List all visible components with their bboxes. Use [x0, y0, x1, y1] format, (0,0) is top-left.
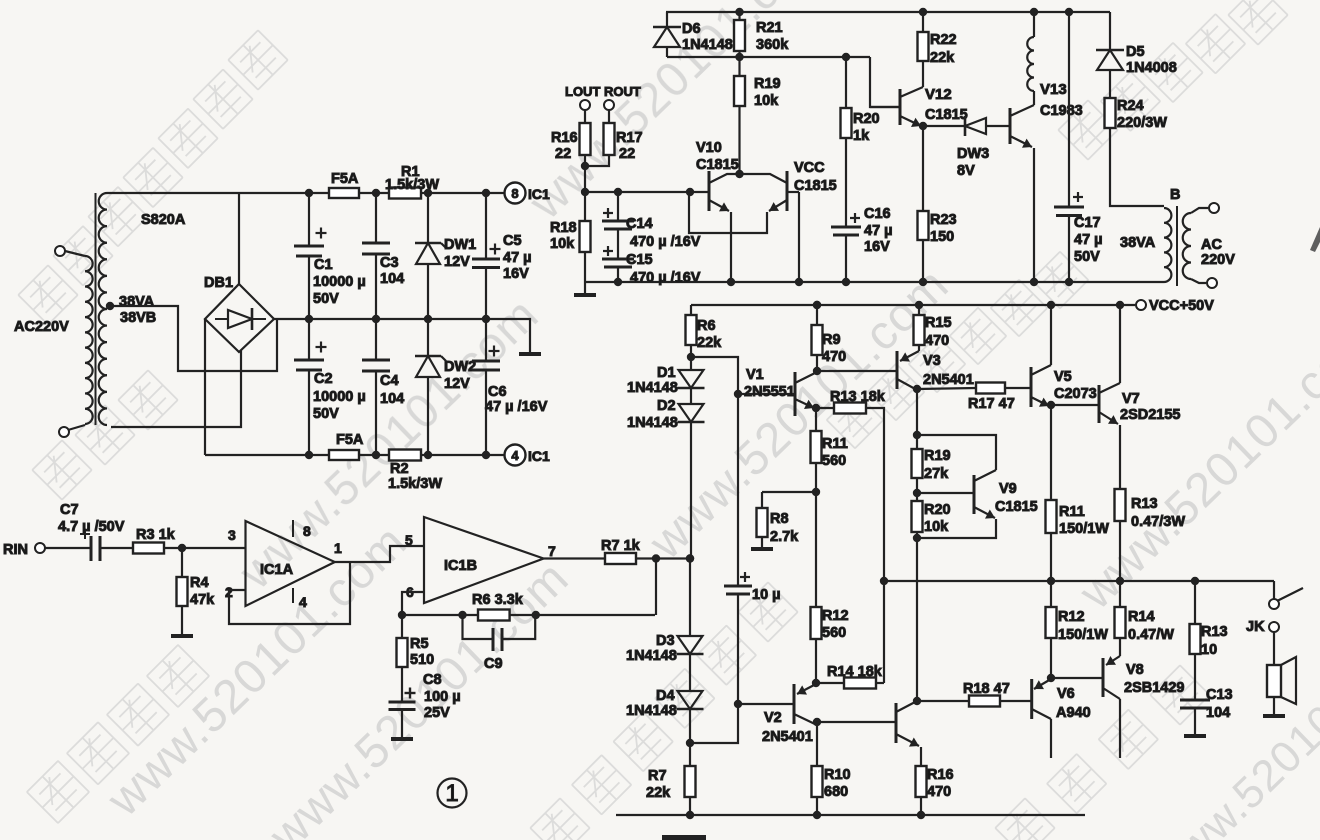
svg-text:560: 560: [822, 625, 846, 641]
svg-text:R18: R18: [550, 220, 577, 236]
svg-text:R22: R22: [930, 32, 957, 48]
svg-text:DW3: DW3: [957, 146, 989, 162]
svg-text:104: 104: [380, 391, 404, 407]
svg-text:7: 7: [548, 543, 556, 559]
svg-text:C8: C8: [423, 672, 442, 688]
svg-text:47k: 47k: [190, 592, 215, 608]
svg-text:12V: 12V: [444, 376, 470, 392]
svg-text:16V: 16V: [503, 266, 529, 282]
svg-text:C1815: C1815: [995, 499, 1038, 515]
svg-text:1k: 1k: [853, 128, 870, 144]
svg-text:0.47/3W: 0.47/3W: [1131, 514, 1185, 530]
svg-text:IC1: IC1: [528, 186, 550, 202]
svg-text:470: 470: [822, 349, 846, 365]
svg-text:R13 18k: R13 18k: [830, 389, 886, 405]
svg-text:A940: A940: [1056, 705, 1091, 721]
svg-text:V8: V8: [1126, 662, 1144, 678]
svg-text:R12: R12: [822, 608, 849, 624]
svg-text:50V: 50V: [313, 406, 339, 422]
svg-text:R24: R24: [1117, 98, 1144, 114]
svg-text:2N5401: 2N5401: [923, 372, 974, 388]
svg-text:50V: 50V: [1074, 249, 1100, 265]
svg-text:470 µ /16V: 470 µ /16V: [630, 234, 701, 250]
svg-text:R8: R8: [770, 511, 789, 527]
svg-text:C13: C13: [1206, 687, 1233, 703]
svg-text:47 µ: 47 µ: [503, 250, 532, 266]
svg-text:V2: V2: [764, 710, 782, 726]
svg-text:D3: D3: [656, 633, 675, 649]
svg-text:V5: V5: [1054, 369, 1072, 385]
svg-text:2SB1429: 2SB1429: [1124, 680, 1184, 696]
svg-text:C7: C7: [60, 502, 79, 518]
svg-text:www.520101.com: www.520101.com: [1144, 608, 1320, 840]
svg-text:2N5551: 2N5551: [744, 384, 795, 400]
svg-text:47 µ: 47 µ: [864, 223, 893, 239]
svg-text:R14 18k: R14 18k: [827, 664, 883, 680]
svg-text:S820A: S820A: [141, 212, 186, 228]
svg-text:V3: V3: [923, 353, 941, 369]
svg-text:R11: R11: [1059, 504, 1085, 520]
svg-text:R23: R23: [930, 212, 957, 228]
svg-text:0.47/W: 0.47/W: [1128, 627, 1174, 643]
svg-text:V13: V13: [1040, 81, 1067, 98]
svg-text:4: 4: [511, 448, 519, 463]
svg-text:22k: 22k: [697, 335, 722, 351]
svg-text:8V: 8V: [957, 163, 975, 179]
svg-text:10 µ: 10 µ: [752, 587, 781, 603]
svg-text:C16: C16: [864, 206, 891, 222]
svg-text:22k: 22k: [930, 50, 955, 66]
svg-text:C4: C4: [380, 373, 399, 389]
svg-text:D6: D6: [682, 21, 701, 37]
svg-text:R11: R11: [822, 436, 848, 452]
svg-text:C3: C3: [380, 255, 399, 271]
svg-text:470: 470: [925, 333, 949, 349]
svg-text:150: 150: [930, 229, 954, 245]
svg-text:DW1: DW1: [444, 237, 476, 253]
svg-text:470: 470: [927, 784, 951, 800]
svg-text:R20: R20: [924, 502, 951, 518]
svg-text:1N4148: 1N4148: [627, 415, 678, 431]
svg-text:4.7 µ /50V: 4.7 µ /50V: [58, 519, 125, 535]
svg-text:C17: C17: [1074, 215, 1101, 231]
svg-text:5: 5: [405, 532, 413, 548]
svg-text:D2: D2: [657, 398, 676, 414]
svg-text:4: 4: [299, 594, 307, 610]
svg-text:C1815: C1815: [696, 157, 739, 173]
svg-text:V10: V10: [696, 140, 722, 156]
svg-text:470 µ /16V: 470 µ /16V: [630, 270, 701, 286]
svg-text:38VA: 38VA: [1120, 235, 1156, 251]
svg-text:22k: 22k: [646, 785, 671, 801]
svg-text:R9: R9: [822, 332, 841, 348]
svg-text:2.7k: 2.7k: [770, 529, 799, 545]
svg-text:8: 8: [511, 186, 518, 201]
svg-text:220V: 220V: [1201, 252, 1235, 268]
svg-text:C1: C1: [314, 257, 333, 273]
svg-text:V1: V1: [746, 367, 764, 383]
svg-text:47 µ: 47 µ: [1074, 232, 1103, 248]
svg-text:R19: R19: [754, 76, 781, 92]
svg-text:10k: 10k: [550, 236, 575, 252]
svg-text:C1815: C1815: [794, 178, 837, 194]
svg-text:27k: 27k: [924, 466, 949, 482]
svg-text:C2073: C2073: [1054, 386, 1097, 402]
svg-text:IC1A: IC1A: [260, 562, 294, 578]
svg-text:www.520101.com: www.520101.com: [1069, 308, 1320, 620]
svg-text:AC: AC: [1201, 237, 1222, 253]
svg-text:8: 8: [303, 523, 311, 539]
svg-text:C1815: C1815: [925, 107, 968, 123]
svg-text:1.5k/3W: 1.5k/3W: [388, 476, 442, 492]
svg-text:680: 680: [824, 784, 848, 800]
svg-text:D4: D4: [656, 688, 675, 704]
svg-text:C5: C5: [503, 233, 522, 249]
svg-text:R21: R21: [756, 20, 783, 36]
svg-text:IC1: IC1: [528, 448, 550, 464]
svg-text:R3 1k: R3 1k: [136, 527, 176, 543]
svg-text:www.520101.com: www.520101.com: [519, 0, 839, 230]
svg-text:1N4148: 1N4148: [682, 37, 733, 53]
svg-text:R14: R14: [1128, 609, 1155, 625]
svg-text:2SD2155: 2SD2155: [1120, 407, 1180, 423]
svg-text:V6: V6: [1057, 686, 1075, 702]
svg-text:22: 22: [555, 146, 571, 162]
svg-text:R4: R4: [190, 575, 209, 591]
svg-text:R19: R19: [924, 448, 951, 464]
svg-text:R6: R6: [697, 318, 716, 334]
svg-text:R12: R12: [1058, 609, 1085, 625]
svg-text:R13: R13: [1131, 496, 1158, 512]
svg-text:R15: R15: [925, 315, 952, 331]
svg-text:V9: V9: [999, 481, 1017, 497]
svg-text:DB1: DB1: [204, 275, 233, 291]
svg-text:220/3W: 220/3W: [1117, 115, 1167, 131]
svg-text:10: 10: [1201, 642, 1217, 658]
svg-text:AC220V: AC220V: [14, 319, 69, 335]
svg-text:C2: C2: [314, 371, 333, 387]
svg-text:150/1W: 150/1W: [1059, 521, 1109, 537]
svg-text:F5A: F5A: [331, 171, 359, 187]
svg-text:V12: V12: [925, 86, 952, 103]
svg-text:2N5401: 2N5401: [762, 729, 813, 745]
svg-text:1: 1: [334, 540, 342, 556]
svg-text:F5A: F5A: [336, 432, 364, 448]
svg-text:LOUT: LOUT: [565, 84, 600, 99]
svg-text:C1983: C1983: [1040, 103, 1083, 119]
svg-text:10000 µ: 10000 µ: [313, 274, 366, 290]
svg-text:D5: D5: [1126, 44, 1145, 60]
svg-text:C15: C15: [626, 252, 653, 268]
svg-text:22: 22: [619, 146, 635, 162]
svg-text:3: 3: [228, 527, 236, 543]
svg-text:10k: 10k: [754, 93, 779, 109]
svg-text:R17: R17: [616, 130, 643, 146]
svg-text:ROUT: ROUT: [604, 84, 641, 99]
svg-text:10000 µ: 10000 µ: [313, 389, 366, 405]
svg-text:C9: C9: [484, 656, 503, 672]
svg-text:1N4148: 1N4148: [627, 380, 678, 396]
svg-text:360k: 360k: [756, 37, 789, 53]
svg-text:104: 104: [1206, 705, 1230, 721]
svg-text:150/1W: 150/1W: [1058, 627, 1108, 643]
svg-text:C14: C14: [626, 216, 653, 232]
svg-text:R5: R5: [410, 636, 429, 652]
svg-text:1N4148: 1N4148: [626, 703, 677, 719]
svg-text:V7: V7: [1122, 391, 1140, 407]
svg-text:R20: R20: [853, 111, 880, 127]
svg-text:104: 104: [380, 271, 404, 287]
svg-text:38VA: 38VA: [119, 294, 155, 310]
svg-text:100 µ: 100 µ: [424, 689, 461, 705]
svg-text:10k: 10k: [924, 519, 949, 535]
svg-text:DW2: DW2: [444, 359, 476, 375]
svg-text:D1: D1: [657, 365, 676, 381]
svg-text:38VB: 38VB: [120, 310, 156, 326]
svg-text:25V: 25V: [424, 705, 450, 721]
svg-text:R16: R16: [927, 767, 954, 783]
svg-text:R10: R10: [824, 767, 851, 783]
svg-text:VCC: VCC: [794, 160, 825, 176]
svg-text:R18 47: R18 47: [963, 681, 1010, 697]
svg-text:16V: 16V: [864, 239, 890, 255]
svg-text:R17 47: R17 47: [968, 396, 1015, 412]
svg-text:IC1B: IC1B: [444, 558, 477, 574]
svg-text:47 µ /16V: 47 µ /16V: [485, 399, 548, 415]
svg-text:VCC+50V: VCC+50V: [1149, 298, 1214, 314]
svg-text:12V: 12V: [444, 254, 470, 270]
svg-text:510: 510: [410, 652, 434, 668]
svg-text:R7: R7: [648, 768, 667, 784]
svg-text:R16: R16: [551, 130, 578, 146]
svg-text:R7 1k: R7 1k: [601, 538, 641, 554]
svg-text:1: 1: [445, 780, 458, 807]
svg-text:RIN: RIN: [3, 542, 28, 558]
svg-text:R13: R13: [1201, 624, 1228, 640]
svg-text:1N4008: 1N4008: [1126, 60, 1177, 76]
svg-text:1N4148: 1N4148: [626, 648, 677, 664]
svg-text:R6 3.3k: R6 3.3k: [472, 592, 524, 608]
svg-text:B: B: [1170, 187, 1180, 203]
svg-text:C6: C6: [488, 384, 507, 400]
svg-text:50V: 50V: [313, 291, 339, 307]
svg-text:560: 560: [822, 453, 846, 469]
svg-text:R2: R2: [390, 461, 409, 477]
svg-text:JK: JK: [1246, 619, 1265, 635]
